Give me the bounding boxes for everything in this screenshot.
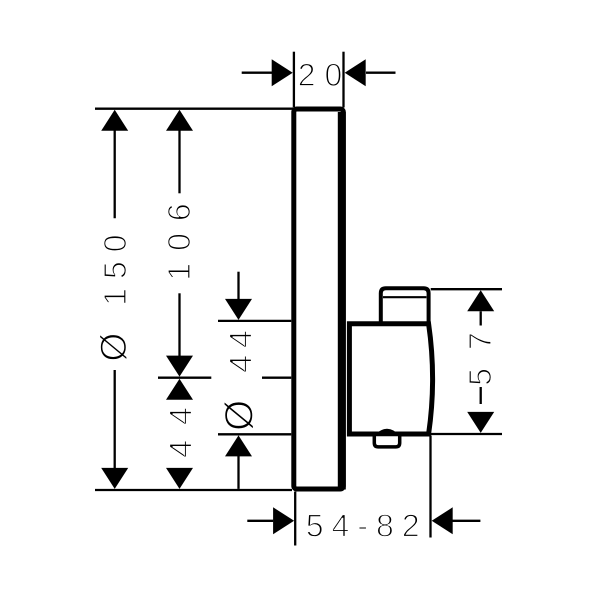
arrow 150 up [101,110,128,131]
arrow 54-82 right-pointing [432,507,453,534]
tab arc bump [374,429,401,437]
wire ext 20 right [342,52,344,108]
plate right face band [338,112,346,490]
wire stem 57 lower [480,387,482,404]
wire tick dia44 top [218,320,291,322]
wire tick 57 top [431,288,502,290]
wire tick 106 right part [262,377,291,379]
valve body [349,324,432,434]
plate (escutcheon side view) [294,109,344,489]
arrow 57 up [467,290,494,311]
wire tick dia44 bottom [218,433,291,435]
arrow 150 down [101,468,128,489]
arrow 57 down [467,412,494,433]
knob inner line [383,296,426,298]
arrow dia44 up [225,435,252,456]
wire stem 106 lower [178,293,180,357]
wire tail 54-82 left [247,520,273,522]
arrow 44 up [166,379,193,400]
arrow 20 left [272,59,293,86]
label 44 of dia44 [230,331,252,372]
wire stem 106 upper [178,130,180,193]
label 106 [168,205,191,279]
wire stem dia44 upper [237,272,239,300]
wire tail 54-82 right [453,520,481,522]
arrow 106 down [166,356,193,377]
wire tick 106 left part [158,377,211,379]
wire ext 54-82 left [294,492,296,546]
knob (stop valve cap) [381,288,429,324]
wire stem 57 upper [480,311,482,325]
wire tick 57 bottom [431,433,502,435]
arrow 106 up [166,110,193,131]
wire tail 20 right [366,72,396,74]
wire stem 150 lower [114,370,116,469]
wire ext 54-82 right [429,436,431,538]
wire stem dia44 lower [237,456,239,489]
wire top extension line [95,108,293,110]
arrow 44 down [166,468,193,489]
label dia of dia44 [224,401,254,429]
label 20 [299,64,341,87]
wire tail 20 left [242,72,273,74]
label 57 [469,334,491,385]
tab (detent) below body [374,434,399,447]
arrow 20 right [345,59,366,86]
wire stem 150 upper [114,130,116,218]
wire ext 20 left [293,52,295,108]
arrow dia44 down [225,299,252,320]
label 44 [170,408,192,457]
arrow 54-82 left-pointing [273,507,294,534]
wire bottom extension line [95,489,292,491]
label dia 150 [100,236,128,361]
label 54-82 [307,514,418,537]
